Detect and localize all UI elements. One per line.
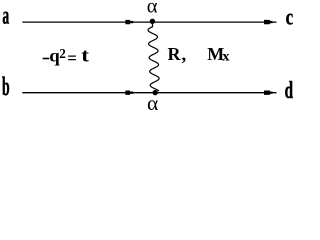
arrow on top line (mid) (125, 20, 133, 24)
svg-text:=: = (67, 48, 76, 68)
arrow on bottom line (mid) (125, 91, 133, 95)
svg-text:α: α (147, 91, 158, 115)
equation minus sign (43, 58, 50, 60)
svg-text:a: a (2, 3, 9, 30)
node: top vertex dot (150, 19, 155, 24)
svg-text:α: α (147, 0, 158, 18)
svg-text:,: , (182, 45, 187, 66)
wire: fermion line a to c (top) (22, 21, 276, 23)
svg-text:x: x (222, 50, 229, 64)
arrow on bottom line (end, before d) (264, 91, 272, 95)
svg-text:t: t (81, 45, 89, 66)
svg-text:b: b (2, 72, 10, 101)
svg-text:d: d (285, 77, 294, 103)
svg-text:2: 2 (59, 46, 66, 61)
arrow on top line (end, before c) (264, 20, 272, 24)
wavy propagator between vertices (148, 22, 159, 92)
svg-text:R: R (168, 44, 182, 64)
svg-text:c: c (286, 5, 294, 30)
wire: fermion line b to d (bottom) (22, 92, 276, 94)
node: bottom vertex dot (153, 90, 158, 95)
